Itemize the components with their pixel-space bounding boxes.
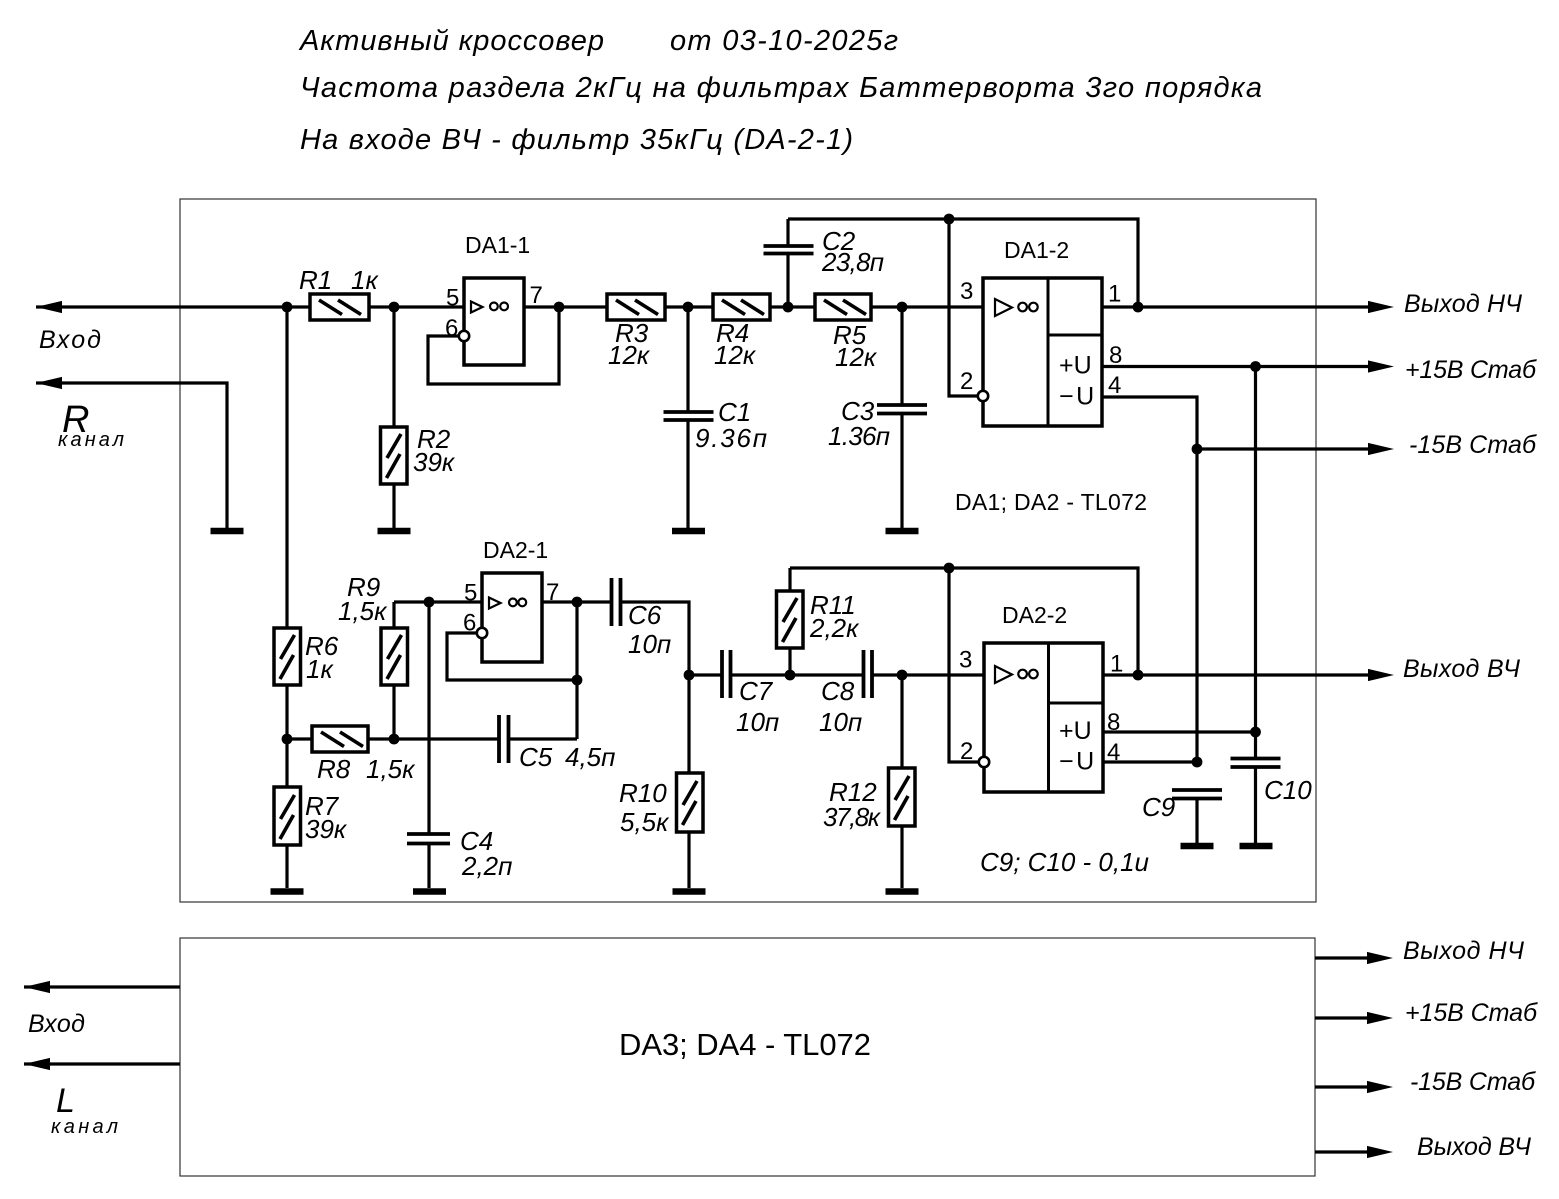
ground (R7) xyxy=(271,888,304,895)
op-amp DA2-2 xyxy=(959,602,1123,792)
node R1/R2 xyxy=(389,302,400,313)
resistor R11 xyxy=(777,568,861,675)
input ground stub wire xyxy=(36,383,227,528)
wire: inverting input rail DA2-2 (pin 2) xyxy=(949,568,978,762)
wire: pin 8 +15V line xyxy=(1102,365,1369,368)
svg-text:+15В Стаб: +15В Стаб xyxy=(1405,999,1538,1027)
ground (R2) xyxy=(378,528,411,535)
wire: pin 4 to -15V rail xyxy=(1102,397,1197,762)
node R5/C3 xyxy=(897,302,908,313)
node DA1-1 out xyxy=(554,302,565,313)
ground (C4) xyxy=(413,888,446,895)
svg-text:7: 7 xyxy=(530,282,543,309)
wire: DA2-1 out to C6 xyxy=(542,600,611,603)
capacitor C3 xyxy=(828,307,927,528)
wire: L out Выход НЧ xyxy=(1315,956,1368,959)
resistor R12 xyxy=(823,768,915,832)
svg-text:2: 2 xyxy=(960,368,973,395)
node R4/C2 xyxy=(783,302,794,313)
svg-text:R8: R8 xyxy=(317,754,351,784)
node R8/R9 xyxy=(389,734,400,745)
node DA2-2 pin8/C10 xyxy=(1250,727,1261,738)
input ground arrow xyxy=(36,377,62,389)
wire: L out -15В xyxy=(1315,1085,1368,1088)
svg-text:2,2к: 2,2к xyxy=(809,613,860,643)
svg-text:DA1; DA2 - TL072: DA1; DA2 - TL072 xyxy=(955,489,1147,515)
wire: feedback top rail DA2-2 xyxy=(790,568,1138,675)
svg-text:+15В Стаб: +15В Стаб xyxy=(1405,356,1537,384)
node C2 top rail xyxy=(944,214,955,225)
capacitor C8 xyxy=(819,650,872,737)
op-amp DA1-1 xyxy=(428,232,559,384)
resistor R4 xyxy=(713,294,770,370)
svg-text:+U: +U xyxy=(1059,717,1092,745)
svg-text:C10: C10 xyxy=(1264,775,1312,805)
op-amp DA1-2 xyxy=(960,237,1122,426)
svg-text:DA2-1: DA2-1 xyxy=(483,537,548,563)
wire: L input 2 xyxy=(24,1062,180,1065)
svg-text:2: 2 xyxy=(960,738,973,765)
node DA2-2 out xyxy=(1133,670,1144,681)
input arrow L channel signal xyxy=(24,981,50,993)
node input/R6 xyxy=(282,302,293,313)
svg-text:+U: +U xyxy=(1059,352,1092,380)
wire: input line to R1 and filter chain (net IN / main low-pass row) xyxy=(36,305,983,308)
svg-text:1: 1 xyxy=(1108,281,1121,308)
svg-text:−U: −U xyxy=(1059,748,1094,776)
svg-text:4: 4 xyxy=(1108,372,1121,399)
svg-text:−U: −U xyxy=(1059,383,1094,411)
svg-text:10п: 10п xyxy=(736,707,779,737)
svg-text:12к: 12к xyxy=(835,342,878,372)
svg-text:10п: 10п xyxy=(819,707,862,737)
wire: C8 to DA2-2 pin 3 xyxy=(872,673,984,676)
svg-text:C8: C8 xyxy=(821,676,855,706)
svg-text:C7: C7 xyxy=(739,676,774,706)
svg-text:DA2-2: DA2-2 xyxy=(1002,602,1067,628)
ground (C9) xyxy=(1181,843,1214,850)
node C6/R10/C7 xyxy=(684,670,695,681)
svg-text:6: 6 xyxy=(463,610,476,637)
svg-text:2,2п: 2,2п xyxy=(461,851,512,881)
resistor R6 xyxy=(274,628,339,685)
wire: +15V rail down to DA2-2 pin 8 xyxy=(1254,367,1257,733)
svg-text:Выход НЧ: Выход НЧ xyxy=(1403,937,1524,965)
arrow -15В xyxy=(1368,443,1394,455)
node DA2-2 pin4/C9 xyxy=(1192,757,1203,768)
svg-text:Выход ВЧ: Выход ВЧ xyxy=(1417,1133,1531,1161)
capacitor C4 xyxy=(407,602,512,888)
svg-text:DA3; DA4 - TL072: DA3; DA4 - TL072 xyxy=(619,1027,871,1062)
ground (R12) xyxy=(886,888,919,895)
wire: R7 to ground xyxy=(285,739,288,787)
wire: DA2-2 output to Выход ВЧ xyxy=(1103,673,1369,676)
svg-text:На входе ВЧ - фильтр 35кГц (DA: На входе ВЧ - фильтр 35кГц (DA-2-1) xyxy=(300,124,853,156)
svg-text:1,5к: 1,5к xyxy=(338,596,388,626)
resistor R5 xyxy=(815,294,878,372)
node DA2-1 feedback/C5 xyxy=(572,675,583,686)
op-amp DA2-1 xyxy=(447,537,577,739)
wire: R9 stubs xyxy=(392,602,395,628)
svg-text:4,5п: 4,5п xyxy=(565,742,615,772)
wire: C2 feedback top rail to DA1-2 output xyxy=(788,219,1138,307)
svg-text:12к: 12к xyxy=(714,340,757,370)
resistor R3 xyxy=(607,294,665,370)
svg-text:Выход НЧ: Выход НЧ xyxy=(1404,290,1522,318)
ground (C10) xyxy=(1240,843,1273,850)
node DA1-2 out xyxy=(1133,302,1144,313)
wire: L input 1 xyxy=(24,985,180,988)
node pin5/C4 xyxy=(424,597,435,608)
frame of L-channel block xyxy=(180,938,1315,1176)
capacitor C9 xyxy=(1142,790,1222,843)
node R3/C1 xyxy=(683,302,694,313)
svg-text:1к: 1к xyxy=(306,654,334,684)
svg-text:3: 3 xyxy=(960,278,973,305)
wire: R10 to ground xyxy=(687,675,690,773)
svg-text:Выход ВЧ: Выход ВЧ xyxy=(1403,655,1520,683)
arrow Выход НЧ xyxy=(1368,301,1394,313)
svg-text:6: 6 xyxy=(445,315,458,342)
resistor R7 xyxy=(274,787,348,845)
svg-text:37,8к: 37,8к xyxy=(823,802,882,832)
svg-text:-15В Стаб: -15В Стаб xyxy=(1410,1068,1536,1096)
arrow Выход НЧ (L) xyxy=(1367,952,1393,964)
node C8/R12 xyxy=(897,670,908,681)
capacitor C6 xyxy=(612,578,672,659)
svg-text:1к: 1к xyxy=(351,265,379,295)
wire: -15V line xyxy=(1197,447,1369,450)
svg-text:3: 3 xyxy=(959,647,972,674)
ground (R10) xyxy=(673,888,706,895)
capacitor C1 xyxy=(664,307,768,528)
node DA2-1 out xyxy=(572,597,583,608)
arrow Выход ВЧ (L) xyxy=(1367,1146,1393,1158)
wire: R9 top / pin 5 row of DA2-1 xyxy=(394,600,482,603)
wire: node B down to R2 xyxy=(392,307,395,427)
svg-text:9.36п: 9.36п xyxy=(695,423,767,453)
svg-text:L: L xyxy=(56,1082,75,1120)
input arrow R channel signal xyxy=(36,301,62,313)
arrow -15В (L) xyxy=(1367,1081,1393,1093)
wire: DA2-2 pin 8 to +15V rail xyxy=(1103,730,1256,733)
svg-text:C9: C9 xyxy=(1142,792,1175,822)
arrow Выход ВЧ xyxy=(1368,669,1394,681)
svg-text:Вход: Вход xyxy=(28,1010,85,1038)
node +15V rail xyxy=(1250,361,1261,372)
node R11 top rail xyxy=(944,563,955,574)
svg-text:10п: 10п xyxy=(628,629,671,659)
node C7/R11/C8 xyxy=(785,670,796,681)
resistor R2 xyxy=(381,424,456,484)
svg-text:R1: R1 xyxy=(299,265,332,295)
arrow +15В (L) xyxy=(1367,1012,1393,1024)
resistor R9 xyxy=(338,572,408,685)
capacitor C5 xyxy=(499,715,615,772)
wire: DA2-2 pin 4 to -15V rail xyxy=(1103,760,1197,763)
resistor R10 xyxy=(619,773,703,837)
wire: HP row between C7 and C8 xyxy=(731,673,864,676)
wire: node A down to R6 (lower section feed) xyxy=(285,307,288,628)
svg-text:C5: C5 xyxy=(519,742,553,772)
svg-text:1,5к: 1,5к xyxy=(366,754,416,784)
capacitor C10 xyxy=(1231,732,1313,843)
wire: R2 bottom to ground xyxy=(392,484,395,528)
capacitor C2 xyxy=(764,219,885,307)
wire: R12 to ground xyxy=(900,675,903,768)
wire: C6 to HP filter row xyxy=(621,602,722,675)
frame of R-channel block xyxy=(180,199,1316,902)
svg-text:12к: 12к xyxy=(608,340,651,370)
wire: inverting input rail DA1-2 (pin 2) xyxy=(949,219,978,396)
arrow +15В xyxy=(1368,360,1394,372)
wire: L out Выход ВЧ xyxy=(1315,1150,1368,1153)
ground (C3) xyxy=(886,528,919,535)
svg-text:-15В Стаб: -15В Стаб xyxy=(1409,431,1537,459)
wire: DA1-2 output to Выход НЧ xyxy=(1102,305,1369,308)
svg-text:C9; C10 - 0,1u: C9; C10 - 0,1u xyxy=(980,847,1149,877)
wire: L out +15В xyxy=(1315,1016,1368,1019)
input ground arrow (L) xyxy=(24,1058,50,1070)
svg-text:C6: C6 xyxy=(628,600,662,630)
wire: R8 row (node to node) xyxy=(287,737,499,740)
svg-text:Активный кроссовер: Активный кроссовер xyxy=(298,25,604,57)
resistor R1 xyxy=(299,265,379,320)
svg-text:DA1-2: DA1-2 xyxy=(1004,237,1069,263)
svg-text:5,5к: 5,5к xyxy=(620,807,670,837)
resistor R8 xyxy=(312,726,416,784)
ground (C1) xyxy=(672,528,705,535)
ground (input shield) xyxy=(211,528,244,535)
wire: R6 bottom to R8 node xyxy=(285,685,288,739)
svg-text:Частота раздела 2кГц на фильтр: Частота раздела 2кГц на фильтрах Баттерв… xyxy=(300,72,1262,104)
node R6/R7/R8 xyxy=(282,734,293,745)
svg-text:1.36п: 1.36п xyxy=(828,421,890,451)
node -15V rail xyxy=(1192,444,1203,455)
svg-text:R10: R10 xyxy=(619,778,667,808)
svg-text:23,8п: 23,8п xyxy=(821,247,884,277)
svg-text:39к: 39к xyxy=(413,447,456,477)
svg-text:5: 5 xyxy=(446,284,459,311)
svg-text:от 03-10-2025г: от 03-10-2025г xyxy=(670,25,898,57)
capacitor C7 xyxy=(722,650,779,737)
svg-text:5: 5 xyxy=(464,580,477,607)
svg-text:39к: 39к xyxy=(305,814,348,844)
svg-text:DA1-1: DA1-1 xyxy=(465,232,530,258)
